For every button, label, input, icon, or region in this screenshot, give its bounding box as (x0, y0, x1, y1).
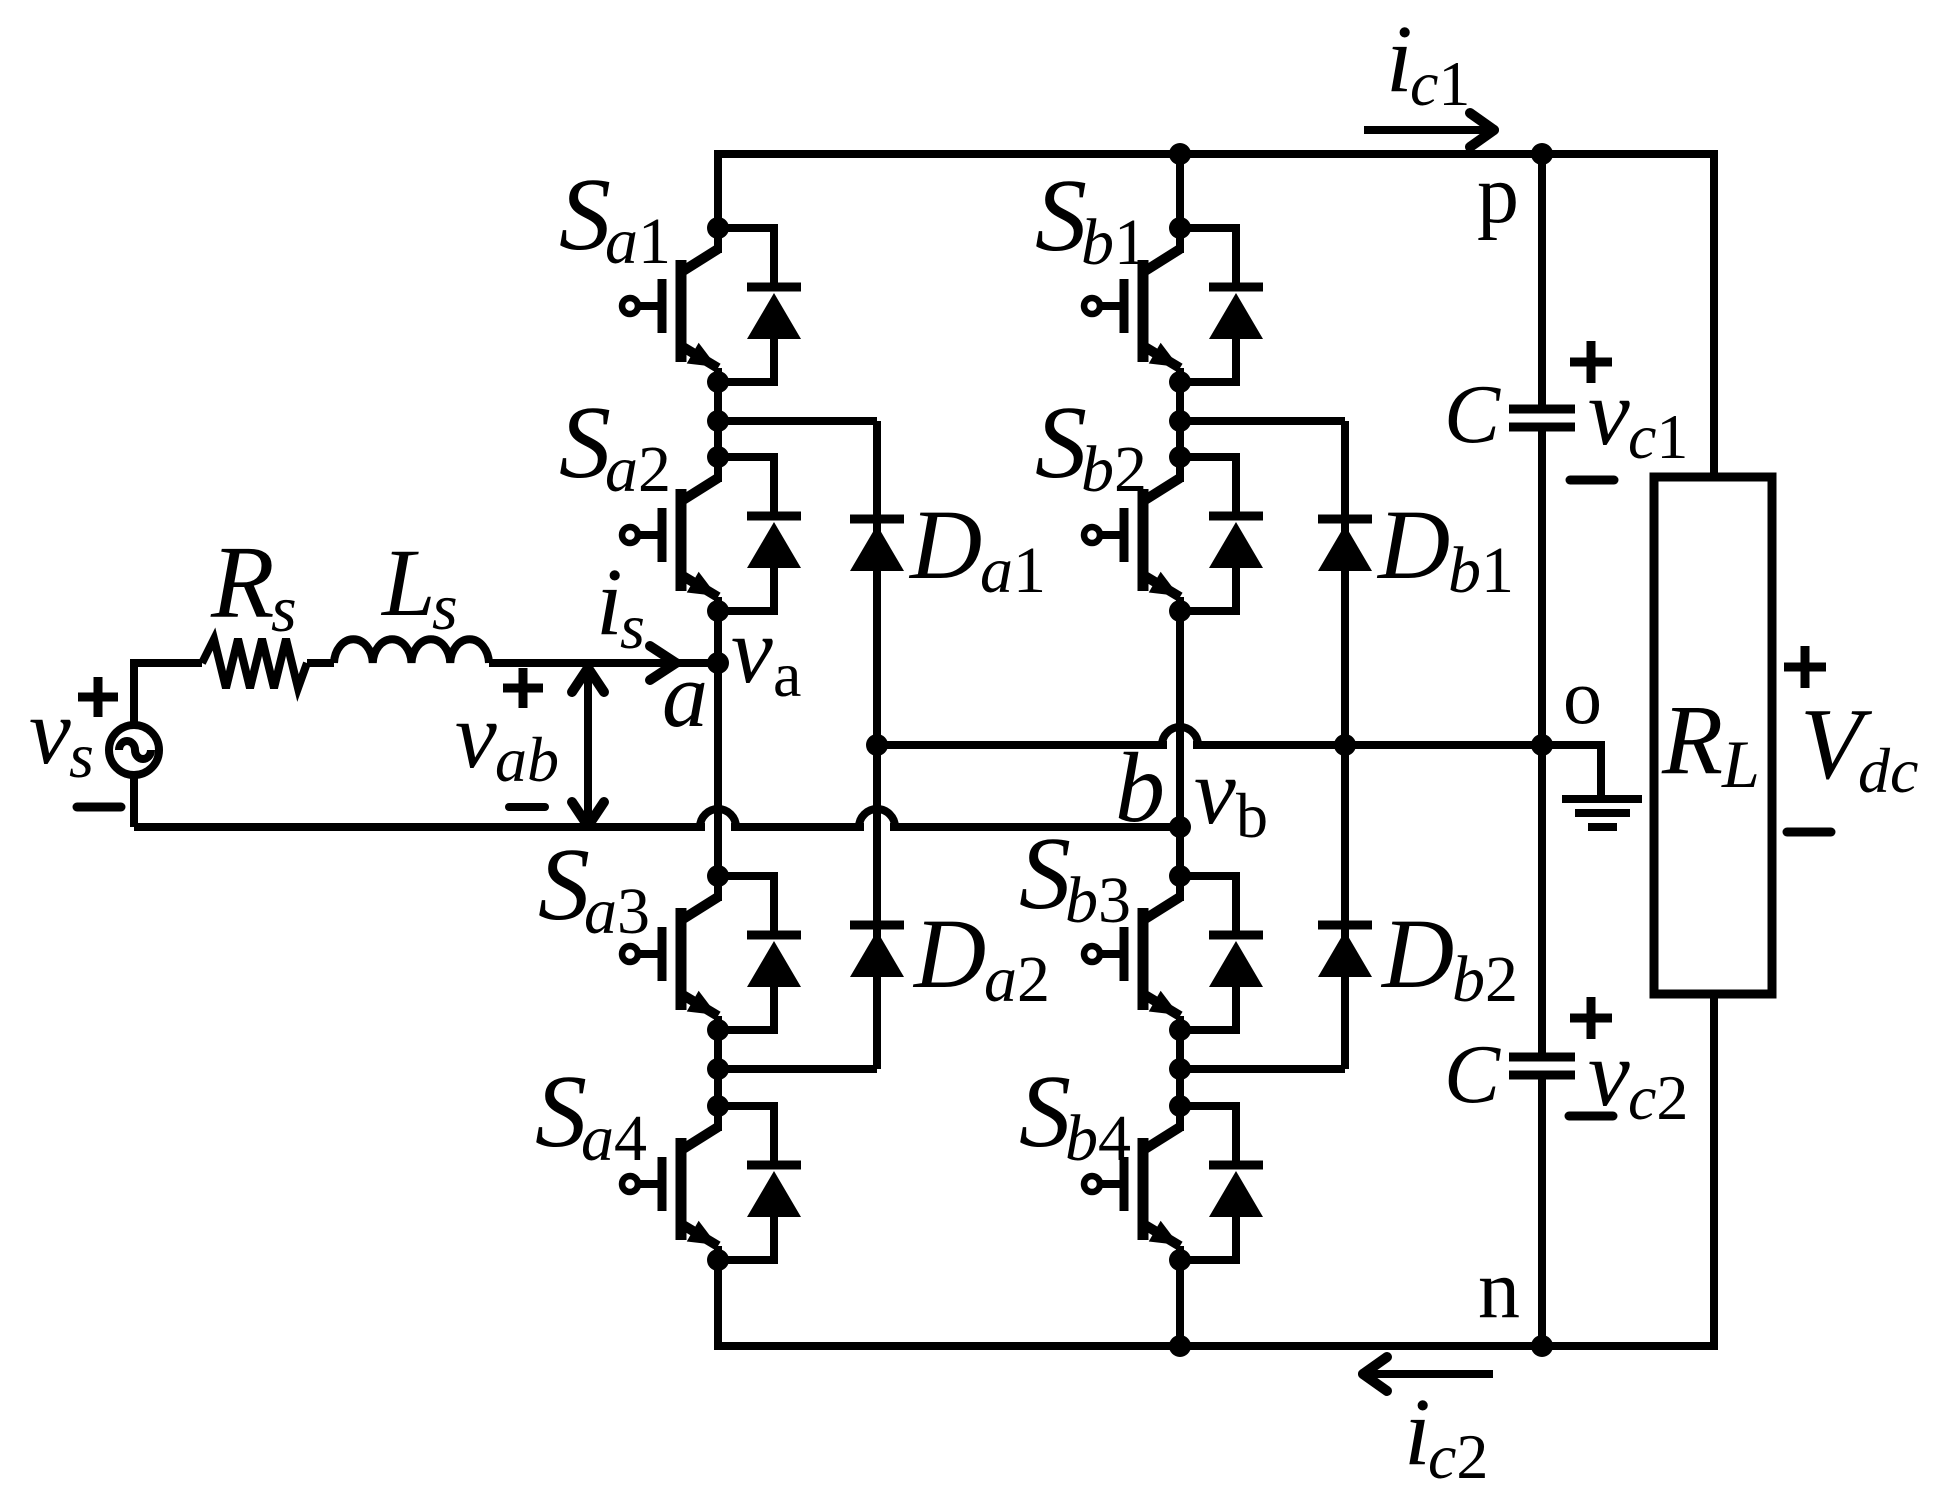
svg-text:v: v (455, 684, 497, 788)
svg-text:c1: c1 (1628, 401, 1688, 472)
svg-text:R: R (1661, 684, 1723, 795)
svg-text:v: v (1588, 361, 1630, 465)
svg-text:a: a (662, 644, 708, 746)
svg-text:i: i (1386, 5, 1413, 112)
svg-text:a2: a2 (984, 943, 1050, 1016)
svg-text:b3: b3 (1065, 864, 1131, 937)
svg-text:a2: a2 (605, 433, 671, 506)
svg-text:a1: a1 (980, 534, 1046, 607)
svg-text:a: a (773, 639, 801, 710)
svg-text:v: v (29, 680, 71, 784)
svg-text:dc: dc (1858, 735, 1918, 806)
svg-text:b1: b1 (1448, 534, 1514, 607)
svg-text:s: s (271, 573, 297, 646)
svg-text:S: S (559, 385, 611, 500)
svg-text:C: C (1444, 368, 1501, 461)
svg-text:R: R (210, 525, 275, 640)
svg-text:i: i (1404, 1378, 1431, 1485)
svg-text:a4: a4 (581, 1102, 647, 1175)
svg-text:s: s (432, 571, 458, 644)
svg-text:C: C (1444, 1028, 1501, 1121)
svg-text:S: S (1035, 158, 1087, 273)
svg-text:S: S (535, 1054, 587, 1169)
svg-text:a1: a1 (605, 205, 671, 278)
svg-text:D: D (908, 489, 982, 600)
svg-text:L: L (1721, 726, 1760, 802)
svg-text:S: S (1019, 816, 1071, 931)
svg-text:b: b (1236, 780, 1268, 851)
svg-text:o: o (1563, 653, 1602, 740)
svg-text:b2: b2 (1081, 433, 1147, 506)
svg-text:c2: c2 (1628, 1062, 1688, 1133)
svg-text:b1: b1 (1081, 206, 1147, 279)
svg-text:S: S (1035, 385, 1087, 500)
svg-text:b: b (1115, 732, 1165, 843)
svg-text:b2: b2 (1452, 943, 1518, 1016)
svg-text:b4: b4 (1065, 1102, 1131, 1175)
svg-text:D: D (1380, 898, 1454, 1009)
svg-text:L: L (380, 529, 435, 636)
svg-text:a3: a3 (584, 875, 650, 948)
svg-text:n: n (1478, 1243, 1520, 1336)
svg-text:D: D (912, 898, 986, 1009)
svg-text:v: v (731, 599, 773, 703)
svg-text:c2: c2 (1428, 1421, 1488, 1492)
svg-text:s: s (620, 591, 645, 662)
svg-text:S: S (559, 157, 611, 272)
svg-text:S: S (1019, 1054, 1071, 1169)
svg-text:D: D (1376, 489, 1450, 600)
svg-text:v: v (1194, 740, 1236, 844)
svg-text:c1: c1 (1410, 48, 1470, 119)
svg-text:i: i (596, 548, 623, 655)
svg-text:ab: ab (495, 724, 559, 795)
svg-text:v: v (1588, 1022, 1630, 1126)
svg-text:p: p (1477, 148, 1519, 241)
svg-text:s: s (69, 720, 94, 791)
svg-text:S: S (538, 827, 590, 942)
